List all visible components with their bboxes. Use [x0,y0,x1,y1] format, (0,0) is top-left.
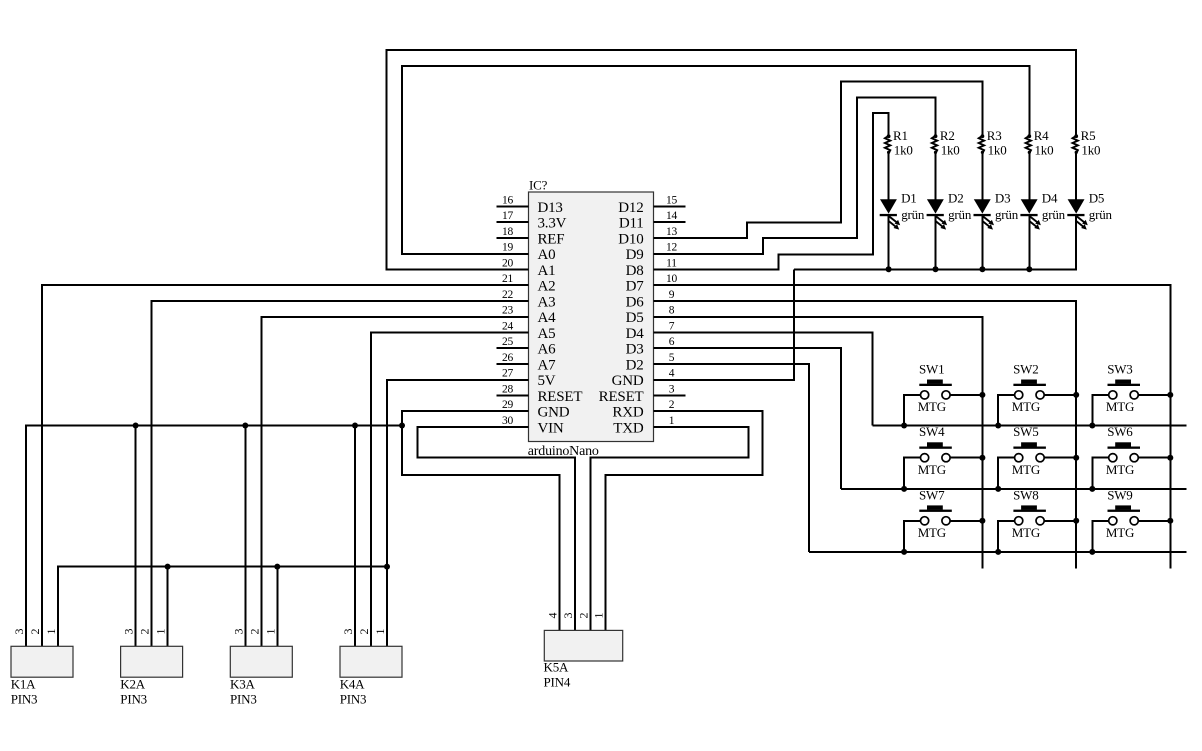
svg-text:D2: D2 [626,357,644,373]
svg-text:1: 1 [669,415,675,427]
svg-text:D3: D3 [995,191,1011,206]
svg-text:D3: D3 [626,342,644,358]
svg-text:VIN: VIN [538,420,564,436]
svg-text:17: 17 [502,210,514,222]
pin 22 A3 (left) [502,289,555,311]
svg-text:21: 21 [502,273,514,285]
svg-text:MTG: MTG [918,525,946,540]
svg-text:1: 1 [154,629,168,635]
pin 18 REF (left) [497,226,565,248]
resistor R4 1k0 [1026,128,1054,158]
svg-text:5: 5 [669,352,675,364]
pin 19 A0 (left) [502,242,555,264]
switch SW5 MTG [995,424,1079,492]
pin 21 A2 (left) [502,273,555,295]
svg-text:D5: D5 [626,310,644,326]
svg-text:D12: D12 [618,200,643,216]
svg-text:3: 3 [231,629,245,635]
svg-text:A3: A3 [538,294,556,310]
svg-text:D5: D5 [1089,191,1105,206]
wire A2 pin21 to K1A pin2 [42,285,529,646]
wire A5 pin24 to K4A pin2 [371,333,529,647]
svg-text:4: 4 [669,368,675,380]
svg-text:REF: REF [538,231,565,247]
pin 3 RESET (right) [599,383,686,405]
wire R4 to D4 [1028,153,1030,200]
svg-text:3: 3 [12,629,26,635]
svg-text:13: 13 [666,226,678,238]
pin 16 D13 (left) [497,194,563,216]
svg-text:23: 23 [502,305,514,317]
connector K3A PIN3 [230,629,292,707]
svg-text:K4A: K4A [340,677,365,692]
svg-text:A6: A6 [538,342,557,358]
wire A1 pin20 to R5 top [387,50,1077,269]
wire R3 to D3 [981,153,983,200]
svg-text:K2A: K2A [120,677,145,692]
wire A4 pin23 to K3A pin2 [261,317,528,647]
junction GND bus at pin29 riser [399,423,405,429]
svg-text:D9: D9 [626,247,644,263]
svg-text:3: 3 [122,629,136,635]
svg-text:1k0: 1k0 [894,143,913,158]
svg-text:D1: D1 [901,191,917,206]
wire D2 pin5 to row 3 [654,364,810,552]
pin 13 D10 (right) [618,226,677,248]
pin 15 D12 (right) [618,194,685,216]
pin 6 D3 (right) [626,336,675,358]
svg-text:K1A: K1A [11,677,36,692]
switch SW6 MTG [1089,424,1173,492]
svg-text:R5: R5 [1081,128,1096,143]
op-amp/IC IC? arduinoNano body [529,192,654,442]
svg-text:A7: A7 [538,357,557,373]
svg-text:MTG: MTG [918,462,946,477]
pin 5 D2 (right) [626,352,675,374]
svg-text:2: 2 [247,629,261,635]
svg-text:SW4: SW4 [919,424,945,439]
pin 12 D9 (right) [626,242,678,264]
pin 26 A7 (left) [497,352,557,374]
svg-text:11: 11 [666,257,677,269]
svg-text:1k0: 1k0 [1035,143,1054,158]
svg-text:grün: grün [1042,207,1066,222]
svg-text:R1: R1 [893,128,908,143]
svg-text:1k0: 1k0 [988,143,1007,158]
wire 5V bus from K1A pin1 [58,567,387,647]
wire RXD pin2 to K5A pin1 [606,411,763,630]
junction 5V bus at K3A [274,564,280,570]
pin 14 D11 (right) [619,210,686,232]
LED D4 gruen [1020,191,1065,230]
pin 29 GND (left) [502,399,570,421]
wire 5V pin27 to K4A pin1 [387,380,529,647]
LED D3 gruen [974,191,1019,230]
wire GND bus drop to K4A pin3 [354,426,356,647]
svg-text:D11: D11 [619,216,644,232]
junction 5V bus at K2A [165,564,171,570]
wire D10 pin13 to R3 top [654,82,983,238]
switch SW4 MTG [901,424,985,492]
wire matrix row 3 [809,551,1186,553]
pin 4 GND (right) [612,368,675,390]
junction 5V bus at K4A [384,564,390,570]
svg-text:22: 22 [502,289,514,301]
wire D2 cathode to bus [935,215,937,269]
resistor R3 1k0 [979,128,1007,158]
svg-text:24: 24 [502,320,514,332]
svg-text:D4: D4 [626,326,645,342]
svg-text:R2: R2 [940,128,955,143]
connector K1A PIN3 [11,629,73,707]
svg-text:A1: A1 [538,263,556,279]
wire VIN pin30 to K5A pin3 [418,427,576,630]
wire D3 pin6 to row 2 [654,348,842,489]
svg-text:20: 20 [502,257,514,269]
svg-text:25: 25 [502,336,514,348]
wire D3 cathode to bus [981,215,983,269]
svg-text:1k0: 1k0 [941,143,960,158]
switch SW8 MTG [995,487,1079,555]
svg-text:A2: A2 [538,279,556,295]
svg-text:9: 9 [669,289,675,301]
svg-text:D8: D8 [626,263,644,279]
svg-text:MTG: MTG [1106,525,1134,540]
svg-text:grün: grün [1089,207,1113,222]
svg-text:RXD: RXD [612,405,643,421]
wire matrix row 2 [841,488,1186,490]
svg-text:3: 3 [561,613,575,619]
svg-text:D2: D2 [948,191,964,206]
svg-text:2: 2 [28,629,42,635]
pin 27 5V (left) [502,368,556,390]
wire TXD pin1 to K5A pin2 [590,427,748,630]
svg-text:MTG: MTG [1012,399,1040,414]
pin 23 A4 (left) [502,305,556,327]
svg-text:1: 1 [592,613,606,619]
svg-text:SW9: SW9 [1107,487,1132,502]
svg-text:grün: grün [901,207,925,222]
svg-text:7: 7 [669,320,675,332]
LED D5 gruen [1067,191,1112,230]
wire 5V bus drop to K2A pin1 [167,567,169,647]
svg-text:SW6: SW6 [1107,424,1133,439]
svg-text:1: 1 [44,629,58,635]
pin 20 A1 (left) [502,257,555,279]
svg-text:D10: D10 [618,231,643,247]
svg-text:18: 18 [502,226,514,238]
junction GND bus at K4A [352,423,358,429]
svg-text:K3A: K3A [230,677,255,692]
wire D4 pin7 to row 1 [654,333,873,426]
svg-text:D7: D7 [626,279,645,295]
svg-text:MTG: MTG [1012,525,1040,540]
switch SW1 MTG [901,361,985,428]
wire D8 pin11 to R1 top [654,113,889,269]
svg-text:16: 16 [502,194,514,206]
wire LED cathode bus [794,215,1076,269]
resistor R5 1k0 [1073,128,1101,158]
svg-text:PIN3: PIN3 [340,692,367,707]
switch SW7 MTG [901,487,985,555]
svg-text:2: 2 [138,629,152,635]
resistor R2 1k0 [932,128,960,158]
wire GND bus drop to K2A pin3 [135,426,137,647]
wire R1 to D1 [888,153,890,200]
svg-text:1: 1 [373,629,387,635]
svg-text:15: 15 [666,194,678,206]
svg-text:8: 8 [669,305,675,317]
connector K4A PIN3 [340,629,402,707]
svg-text:MTG: MTG [1012,462,1040,477]
svg-text:PIN3: PIN3 [230,692,257,707]
svg-text:1k0: 1k0 [1081,143,1100,158]
svg-text:SW3: SW3 [1107,361,1132,376]
wire GND bus to K1A pin3 [26,426,402,647]
svg-text:MTG: MTG [1106,399,1134,414]
svg-text:3: 3 [669,383,675,395]
pin 8 D5 (right) [626,305,675,327]
svg-text:MTG: MTG [918,399,946,414]
junction GND bus at K3A [242,423,248,429]
LED D2 gruen [927,191,972,230]
svg-text:27: 27 [502,368,514,380]
svg-text:K5A: K5A [544,660,569,675]
wire matrix row 1 [873,425,1187,427]
svg-text:RESET: RESET [599,389,644,405]
wire D9 pin12 to R2 top [654,98,936,254]
connector K5A PIN4 [544,613,623,690]
svg-text:10: 10 [666,273,678,285]
wire 5V bus drop to K3A pin1 [276,567,278,647]
junction LED bus at R1 [886,266,892,272]
svg-text:GND: GND [538,405,570,421]
switch SW2 MTG [995,361,1079,428]
svg-text:2: 2 [669,399,675,411]
pin 2 RXD (right) [612,399,674,421]
resistor R1 1k0 [885,128,913,158]
svg-text:RESET: RESET [538,389,583,405]
svg-text:D13: D13 [538,200,563,216]
wire GND pin29 to K5A pin4 [402,411,559,630]
svg-text:12: 12 [666,242,678,254]
junction LED bus at R3 [979,266,985,272]
svg-text:R4: R4 [1034,128,1049,143]
svg-text:3.3V: 3.3V [538,216,567,232]
svg-text:PIN3: PIN3 [11,692,38,707]
svg-text:2: 2 [357,629,371,635]
wire D1 cathode to bus [888,215,890,269]
pin 17 3.3V (left) [497,210,567,232]
svg-text:SW5: SW5 [1013,424,1038,439]
svg-text:SW8: SW8 [1013,487,1038,502]
svg-text:1: 1 [263,629,277,635]
svg-text:GND: GND [612,373,644,389]
pin 25 A6 (left) [497,336,557,358]
pin 1 TXD (right) [613,415,674,437]
svg-text:19: 19 [502,242,514,254]
wire D5 pin8 to column 1 [654,317,983,569]
wire R5 to D5 [1075,153,1077,200]
svg-text:28: 28 [502,383,514,395]
svg-text:30: 30 [502,415,514,427]
svg-text:26: 26 [502,352,514,364]
wire D6 pin9 to column 2 [654,301,1077,569]
svg-text:4: 4 [545,613,559,619]
pin 11 D8 (right) [626,257,678,279]
svg-text:A4: A4 [538,310,557,326]
pin 7 D4 (right) [626,320,675,342]
svg-text:6: 6 [669,336,675,348]
wire GND bus drop to K3A pin3 [244,426,246,647]
pin 28 RESET (left) [497,383,583,405]
svg-text:SW2: SW2 [1013,361,1038,376]
wire D4 cathode to bus [1028,215,1030,269]
wire D7 pin10 to column 3 [654,285,1171,569]
svg-text:SW1: SW1 [919,361,944,376]
pin 9 D6 (right) [626,289,675,311]
svg-text:grün: grün [995,207,1019,222]
svg-text:5V: 5V [538,373,556,389]
svg-text:2: 2 [576,613,590,619]
pin 10 D7 (right) [626,273,678,295]
svg-text:14: 14 [666,210,678,222]
wire GND pin4 to LED bus [654,269,794,380]
svg-text:A5: A5 [538,326,556,342]
svg-text:MTG: MTG [1106,462,1134,477]
junction GND bus at K2A [133,423,139,429]
svg-text:PIN4: PIN4 [544,675,571,690]
svg-text:A0: A0 [538,247,556,263]
svg-text:29: 29 [502,399,514,411]
svg-text:SW7: SW7 [919,487,945,502]
wire A3 pin22 to K2A pin2 [152,301,529,646]
connector K2A PIN3 [120,629,182,707]
label IC? [529,178,548,193]
svg-text:TXD: TXD [613,420,644,436]
svg-text:grün: grün [948,207,972,222]
junction LED bus at R4 [1026,266,1032,272]
svg-text:D4: D4 [1042,191,1058,206]
wire D5 cathode to bus [1075,215,1077,269]
pin 30 VIN (left) [502,415,564,437]
svg-text:D6: D6 [626,294,645,310]
svg-text:PIN3: PIN3 [120,692,147,707]
svg-text:R3: R3 [987,128,1002,143]
wire A0 pin19 to R4 top [402,66,1029,254]
switch SW3 MTG [1089,361,1173,428]
switch SW9 MTG [1089,487,1173,555]
LED D1 gruen [880,191,925,230]
junction LED bus at R2 [933,266,939,272]
pin 24 A5 (left) [502,320,555,342]
svg-text:3: 3 [341,629,355,635]
label arduinoNano [528,444,599,459]
wire R2 to D2 [935,153,937,200]
svg-text:IC?: IC? [529,178,548,193]
